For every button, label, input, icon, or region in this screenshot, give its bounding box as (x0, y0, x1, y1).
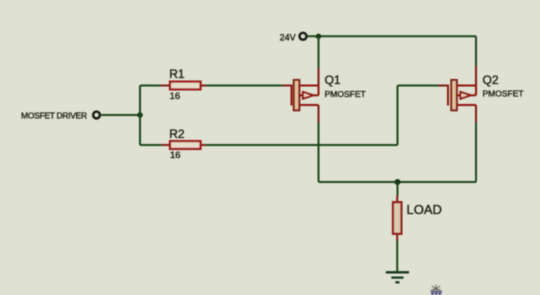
svg-text:Q1: Q1 (325, 73, 341, 87)
svg-text:MOSFET DRIVER: MOSFET DRIVER (21, 111, 87, 121)
svg-text:16: 16 (170, 150, 181, 161)
wire (140, 85, 163, 87)
junction node load tap (395, 179, 401, 185)
svg-text:R1: R1 (169, 67, 185, 81)
ground (386, 272, 409, 282)
wire (318, 36, 320, 68)
junction node at R1/R2 split (137, 112, 143, 118)
wire (318, 122, 320, 182)
wire (140, 144, 162, 146)
svg-text:16: 16 (170, 91, 181, 102)
wire (475, 36, 477, 65)
svg-text:LOAD: LOAD (407, 202, 442, 217)
wire (396, 241, 398, 273)
wire (475, 122, 477, 182)
svg-text:Q2: Q2 (483, 73, 499, 87)
resistor LOAD (393, 196, 401, 241)
junction node 24V rail (316, 34, 321, 39)
wire (319, 181, 477, 183)
svg-text:PMOSFET: PMOSFET (325, 89, 366, 99)
resistor R1 (160, 82, 206, 90)
wire (206, 85, 282, 87)
transistor Q2 (439, 66, 476, 123)
wire (100, 114, 140, 116)
svg-text:R2: R2 (169, 127, 185, 141)
wire (398, 85, 440, 87)
svg-text:PMOSFET: PMOSFET (483, 89, 524, 99)
wire (206, 144, 398, 146)
wire (139, 86, 141, 146)
power terminal 24V (300, 33, 307, 40)
origin marker glyph (430, 285, 442, 295)
terminal MOSFET DRIVER (93, 112, 100, 119)
wire (307, 35, 476, 37)
wire (397, 182, 399, 196)
transistor Q1 (282, 68, 319, 122)
wire (397, 86, 399, 146)
resistor R2 (160, 141, 206, 149)
svg-text:24V: 24V (280, 32, 296, 42)
